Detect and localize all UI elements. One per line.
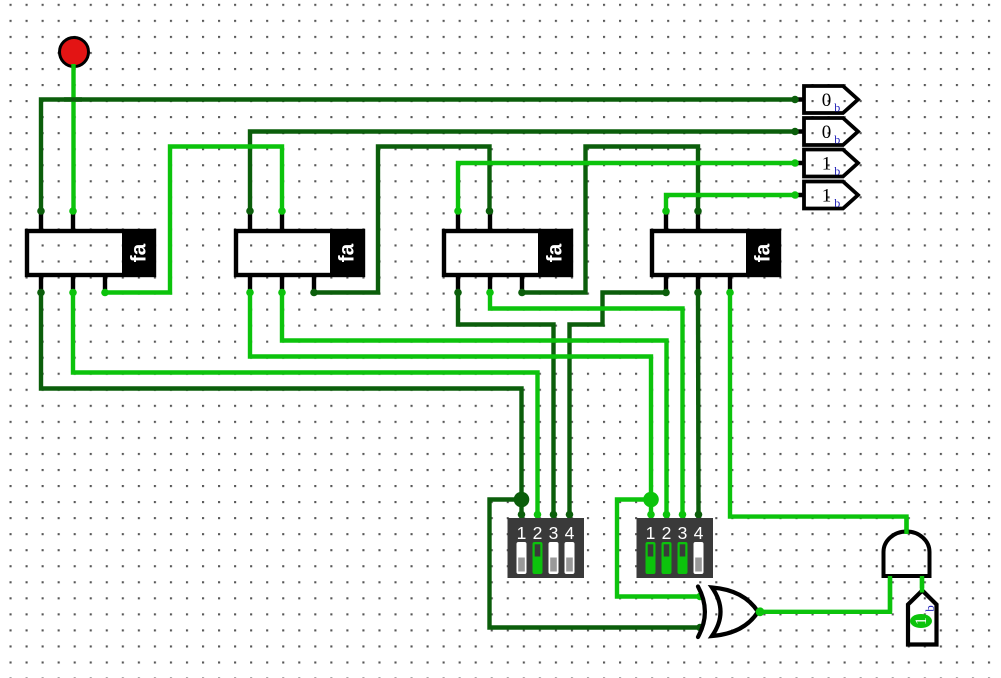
input pin IN2 value 0 bbox=[804, 118, 858, 147]
input pin IN5 value 1 (facing up) bbox=[908, 591, 937, 645]
svg-text:0: 0 bbox=[822, 122, 832, 143]
svg-text:2: 2 bbox=[662, 523, 672, 543]
dark green wires (logic 0) bbox=[41, 100, 795, 628]
wire fa U4 pin3 to AND output bbox=[730, 293, 907, 531]
full adder U1 bbox=[27, 229, 156, 277]
svg-text:1: 1 bbox=[822, 185, 832, 206]
full adder U2 bbox=[236, 229, 364, 277]
wire fa U2 pin1 to DIP2.1 and XOR upper input bbox=[250, 293, 651, 520]
input pin IN1 value 0 bbox=[804, 86, 858, 115]
wire net IN3 to fa U3 pin a bbox=[458, 163, 795, 211]
fa U4 top pin stubs bbox=[666, 211, 698, 230]
full adder U4 bbox=[652, 229, 780, 277]
wire branch junction to XOR lower input bbox=[490, 500, 701, 628]
junction J1 bbox=[514, 492, 530, 508]
LED D1 (lit red) bbox=[60, 38, 89, 67]
fa U4 bottom pin stubs bbox=[666, 275, 730, 293]
svg-text:fa: fa bbox=[544, 243, 567, 262]
svg-text:b: b bbox=[834, 164, 840, 178]
svg-text:fa: fa bbox=[128, 243, 151, 262]
fa U3 bottom pin stubs bbox=[458, 275, 522, 293]
AND input stubs overlay bbox=[890, 576, 922, 612]
input pin IN4 value 1 bbox=[804, 182, 858, 211]
fa U2 top pin stubs bbox=[250, 211, 282, 230]
wire fa U2 pin3 to fa U3 top pin b bbox=[314, 147, 490, 293]
DIP switch S1 (switch 2 on) bbox=[508, 518, 585, 578]
XOR gate bbox=[698, 587, 758, 638]
svg-text:1: 1 bbox=[913, 617, 930, 625]
svg-text:fa: fa bbox=[752, 243, 775, 262]
dark wire endpoint dots bbox=[37, 96, 799, 632]
wire fa U3 pin3 to fa U4 top pin b bbox=[522, 147, 698, 293]
wire fa U4 pin2 to DIP2.4 bbox=[696, 293, 701, 520]
svg-text:4: 4 bbox=[694, 523, 704, 543]
svg-text:3: 3 bbox=[678, 523, 688, 543]
XOR output dot bbox=[756, 607, 765, 616]
svg-text:2: 2 bbox=[533, 523, 543, 543]
wire net IN1 to fa U1 pin a bbox=[41, 100, 795, 212]
wire crossing overlay (dark rail over LED wire) bbox=[64, 97, 82, 101]
svg-text:1: 1 bbox=[646, 523, 656, 543]
svg-text:1: 1 bbox=[822, 153, 832, 174]
wire LED to fa U1 pin b bbox=[71, 64, 75, 211]
wire fa U1 pin2 to DIP1.2 bbox=[73, 293, 538, 520]
bright wire endpoint dots bbox=[69, 159, 799, 600]
svg-text:3: 3 bbox=[549, 523, 559, 543]
slot 1 off bbox=[517, 542, 527, 574]
wire fa U1 pin3 to fa U2 top pin b bbox=[105, 147, 282, 293]
junction J2 bbox=[643, 492, 659, 508]
svg-text:b: b bbox=[922, 605, 937, 612]
slot 1 on bbox=[646, 542, 656, 574]
wire XOR output to AND input bbox=[760, 578, 890, 612]
AND gate bbox=[884, 532, 930, 577]
fa U1 bottom pin stubs bbox=[41, 275, 105, 293]
slot 3 on bbox=[678, 542, 688, 574]
wire branch junction to XOR upper input bbox=[617, 500, 700, 597]
wire fa U3 pin2 to DIP2.3 bbox=[490, 293, 683, 520]
svg-text:b: b bbox=[834, 133, 840, 147]
slot 4 off bbox=[694, 542, 704, 574]
pentagon pin stub overlay bbox=[920, 578, 924, 593]
wire fa U3 pin1 to DIP1.3 bbox=[458, 293, 554, 520]
full adder U3 bbox=[444, 229, 572, 277]
bright green wires (logic 1) bbox=[73, 64, 907, 612]
slot 3 off bbox=[549, 542, 559, 574]
DIP switch S2 (switches 1-3 on) bbox=[637, 518, 714, 578]
wire fa U2 pin2 to DIP2.2 bbox=[282, 293, 667, 520]
svg-text:fa: fa bbox=[336, 243, 359, 262]
input pin stubs right side bbox=[794, 100, 804, 196]
wire fa U1 cout to DIP1.1 and XOR lower input bbox=[41, 293, 522, 520]
AND output wire overlay bbox=[904, 517, 908, 534]
fa U2 bottom pin stubs bbox=[250, 275, 314, 293]
wire fa U4 pin1 to DIP1.4 bbox=[570, 293, 667, 520]
slot 4 off bbox=[565, 542, 575, 574]
svg-text:0: 0 bbox=[822, 90, 832, 111]
slot 2 on bbox=[662, 542, 672, 574]
svg-text:b: b bbox=[834, 196, 840, 210]
svg-text:4: 4 bbox=[565, 523, 575, 543]
wire net IN4 to fa U4 pin a bbox=[666, 195, 795, 211]
fa U3 top pin stubs bbox=[458, 211, 490, 230]
slot 2 on bbox=[533, 542, 543, 574]
fa U1 top pin stubs bbox=[41, 211, 73, 230]
svg-text:1: 1 bbox=[517, 523, 527, 543]
pin stubs (black) bbox=[41, 100, 804, 293]
wire net IN2 to fa U2 pin a bbox=[250, 132, 795, 212]
input pin IN3 value 1 bbox=[804, 150, 858, 179]
svg-text:b: b bbox=[834, 101, 840, 115]
